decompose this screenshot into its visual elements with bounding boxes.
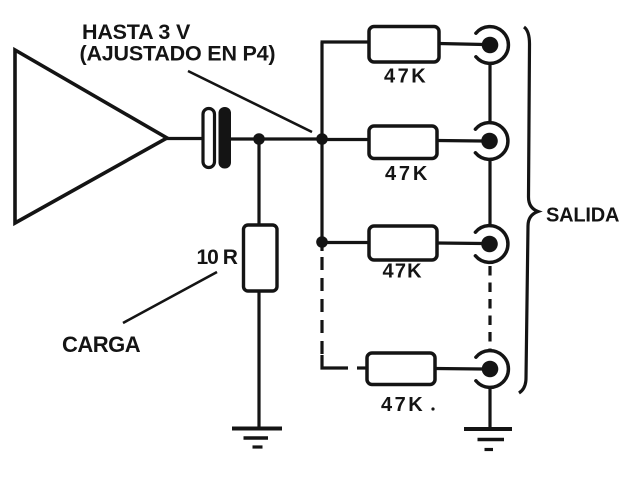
svg-text:47K: 47K [384,66,428,88]
wire J2 to J3 [488,160,491,227]
dashed wire segment to R4 [357,366,368,369]
wire R3 to J3 [437,241,483,245]
wire J4 to ground [488,388,491,430]
svg-text:SALIDA: SALIDA [546,205,619,227]
dashed wire J3 to J4 [488,266,491,349]
svg-text:(AJUSTADO EN P4): (AJUSTADO EN P4) [80,42,276,66]
wire J1 to J2 [488,64,491,124]
op-amp amplifier A1 [15,50,167,223]
bus vertical wire (solid part) [320,42,323,251]
ground left [232,429,282,448]
svg-text:10 R: 10 R [197,246,238,269]
wire branch 2 from node B to R2 [322,138,370,141]
junction node C on bus [316,236,328,248]
resistor R2 47K [369,126,437,159]
svg-text:HASTA 3 V: HASTA 3 V [82,20,191,44]
resistor R5 10R [244,225,278,291]
resistor R1 47K [369,27,439,63]
RCA jack J4 [476,351,509,388]
RCA jack J3 [475,226,508,263]
pointer line from CARGA to R5 [123,272,217,323]
junction node B on bus [316,133,328,145]
svg-text:47K: 47K [385,163,430,185]
resistor R3 47K [369,226,437,260]
brace SALIDA [519,27,538,393]
wire node A down to R5 [257,139,260,226]
wire C1 to node A [231,137,259,140]
bus corner to branch 4 [322,355,348,368]
wire R5 to ground [257,291,260,429]
wire branch 3 from node C to R3 [322,241,370,244]
wire amplifier output to C1 [166,137,203,140]
period after R4 label [431,407,434,410]
bus vertical wire (dashed part) [320,257,323,357]
wire node A to bus node B [259,137,322,140]
RCA jack J1 [476,27,509,64]
wire R1 to J1 [439,44,484,45]
wire R4 to J4 [435,367,483,371]
RCA jack J2 [475,123,508,160]
wire R2 to J2 [437,139,483,143]
ground right [464,429,512,450]
capacitor C1 [203,107,231,169]
label HASTA 3 V (AJUSTADO EN P4) [80,20,276,66]
pointer line from label to node B [188,71,312,132]
wire branch 1 from bus to R1 [321,40,371,43]
svg-text:47K: 47K [383,261,423,283]
svg-text:CARGA: CARGA [62,332,141,357]
resistor R4 47K [367,353,435,385]
svg-text:47K: 47K [381,394,425,416]
junction node A [253,133,265,145]
